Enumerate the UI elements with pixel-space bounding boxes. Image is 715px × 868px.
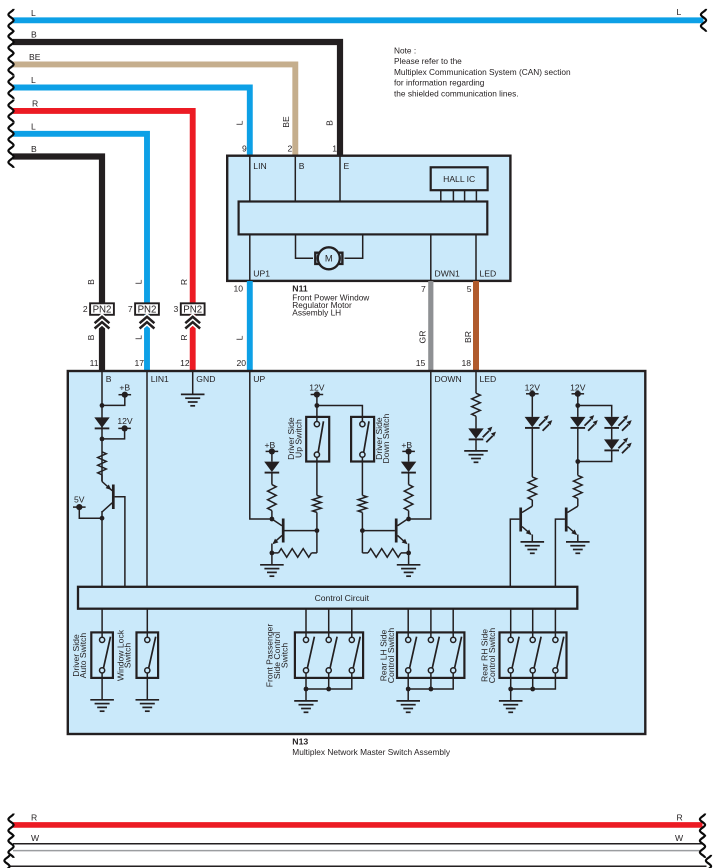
node 12V split <box>315 403 320 408</box>
svg-text:LED: LED <box>480 269 497 279</box>
svg-text:E: E <box>344 161 350 171</box>
wire BR (LED to N13 LED, pin 5 to pin 18) <box>463 281 476 371</box>
svg-text:R: R <box>179 279 189 285</box>
svg-text:10: 10 <box>233 284 243 294</box>
hall IC legs <box>441 190 477 201</box>
wire resistor to LED1 <box>475 416 477 428</box>
svg-text:UP1: UP1 <box>253 269 270 279</box>
wire 12V to up switch <box>316 406 318 422</box>
svg-text:12V: 12V <box>309 383 325 393</box>
svg-text:20: 20 <box>236 358 246 368</box>
svg-text:5V: 5V <box>74 495 85 505</box>
svg-text:W: W <box>31 833 40 843</box>
wire W (bottom, white with outline) <box>8 833 705 858</box>
wire 12V branch to down switch <box>317 406 363 422</box>
12V terminal left <box>102 416 133 439</box>
svg-text:Auto Switch: Auto Switch <box>78 633 88 679</box>
svg-text:W: W <box>675 833 684 843</box>
svg-text:R: R <box>32 99 38 109</box>
svg-text:12V: 12V <box>117 416 133 426</box>
wire BE3 (to N11 pin 2 B) <box>8 52 295 156</box>
wire shield line (bottom edge) <box>4 855 711 868</box>
motor M left brush bracket <box>315 253 321 264</box>
svg-text:1: 1 <box>332 144 337 154</box>
connector PN2 pin 3 (R wire) <box>174 303 205 371</box>
svg-text:B: B <box>31 30 37 40</box>
svg-text:Multiplex Network Master Switc: Multiplex Network Master Switch Assembly <box>292 747 451 757</box>
wire R5 (to connector PN2 pin 3 then N13 GND) <box>8 99 192 304</box>
resistor R5 below down switch <box>358 495 367 512</box>
node on B line at +B <box>100 403 105 408</box>
control circuit bar <box>78 587 577 609</box>
ground below auto switch <box>90 673 114 711</box>
wire join node to resistor <box>577 462 579 476</box>
wires bar to front passenger switch poles <box>306 609 352 638</box>
svg-text:LIN1: LIN1 <box>151 374 169 384</box>
svg-text:HALL IC: HALL IC <box>443 174 475 184</box>
svg-text:BR: BR <box>463 331 473 343</box>
svg-text:R: R <box>677 813 683 823</box>
wire node C down to feedback resistor <box>361 531 363 553</box>
svg-text:+B: +B <box>119 382 130 392</box>
diode D2 of UP branch <box>264 462 279 473</box>
svg-text:L: L <box>677 7 682 17</box>
hall IC box <box>431 167 488 190</box>
ground below rear LH switch <box>396 689 420 712</box>
svg-text:Down Switch: Down Switch <box>381 414 391 464</box>
wire R (bottom, full width) <box>8 813 705 837</box>
svg-text:GND: GND <box>196 374 215 384</box>
wire bar to driver side auto switch <box>101 609 103 638</box>
svg-text:B: B <box>299 161 305 171</box>
svg-text:12: 12 <box>180 358 190 368</box>
svg-text:L: L <box>133 335 143 340</box>
svg-text:B: B <box>31 144 37 154</box>
svg-text:N13: N13 <box>292 737 308 747</box>
ground of UP branch <box>260 553 284 576</box>
wire LIN1 column down to control circuit <box>146 372 148 587</box>
master switch N13 box <box>68 371 646 734</box>
svg-text:B: B <box>106 374 112 384</box>
svg-text:for information regarding: for information regarding <box>394 78 485 88</box>
svg-text:Note :: Note : <box>394 46 416 56</box>
svg-text:L: L <box>31 122 36 132</box>
feedback resistor R3 (horizontal) <box>272 549 317 558</box>
diode D3 of DOWN branch <box>401 462 416 473</box>
internal circuit bar of N11 <box>239 202 488 235</box>
ground of DOWN branch <box>397 553 421 576</box>
wire up switch to resistor <box>316 457 318 495</box>
N11 terminal DWN1 (pin 7) <box>431 234 460 280</box>
svg-text:L: L <box>133 279 143 284</box>
node D (DOWN collector node) <box>406 517 411 522</box>
window lock switch SW4 <box>116 629 158 681</box>
svg-text:Control Switch: Control Switch <box>487 628 497 684</box>
node split column 2 <box>575 403 580 408</box>
wire B7 (to connector PN2 pin 2 then N13 B) <box>8 144 102 303</box>
line resistor to transistor <box>101 475 103 482</box>
svg-text:Control Switch: Control Switch <box>386 628 396 684</box>
svg-text:2: 2 <box>83 304 88 314</box>
node A (UP collector node) <box>270 517 275 522</box>
svg-text:Up Switch: Up Switch <box>293 419 303 458</box>
N11 terminal LIN (pin 9) <box>250 156 267 202</box>
svg-text:5: 5 <box>467 284 472 294</box>
wires bar to rear RH switch poles <box>511 609 556 638</box>
wire LED3 down to join node <box>577 428 579 461</box>
svg-text:9: 9 <box>242 144 247 154</box>
svg-text:B: B <box>86 334 96 340</box>
node C (base node of Q3) <box>360 528 365 533</box>
feedback resistor R7 (horizontal) <box>362 549 408 558</box>
resistor R9 column 1 <box>528 477 537 500</box>
wire L4 (to N11 pin 9 LIN) <box>8 75 249 156</box>
wire resistor to node C <box>361 512 363 530</box>
ground below front passenger switch <box>294 689 318 712</box>
common wire below front passenger switch <box>304 673 352 691</box>
motor M right brush bracket <box>337 253 343 264</box>
wire right string down to join node <box>578 451 612 462</box>
wire B column upper segment <box>101 372 103 482</box>
wire LED2 to resistor <box>531 428 533 477</box>
transistor Q3 (NPN, DOWN driver) <box>362 519 408 553</box>
wire DOWN column down and left to node D <box>411 372 431 519</box>
transistor Q5 (NPN, indicator driver 2) <box>555 506 577 587</box>
12V terminal of indicator column 1 <box>525 383 541 417</box>
node on B line at 12V <box>100 437 105 442</box>
LED1 (illumination) <box>468 427 496 443</box>
ground below rear RH switch <box>499 689 523 712</box>
+B terminal of UP branch <box>265 440 279 462</box>
wire resistor to transistor Q4 <box>531 500 533 506</box>
svg-text:L: L <box>235 335 245 340</box>
node emitter DOWN <box>406 551 411 556</box>
resistor R1 on B line <box>98 452 107 475</box>
motor M <box>318 247 340 269</box>
svg-text:17: 17 <box>134 358 144 368</box>
svg-text:R: R <box>179 334 189 340</box>
LED4 (right string upper) <box>604 415 632 431</box>
N11 terminal UP1 (pin 10) <box>250 234 270 280</box>
wire GR (DWN1 to N13 DOWN, pin 7 to pin 15) <box>417 281 430 371</box>
wire from bar to motor left brush <box>296 234 314 258</box>
ground at GND terminal <box>181 394 205 405</box>
svg-text:11: 11 <box>90 358 99 368</box>
svg-text:BE: BE <box>281 116 291 128</box>
common wire below rear RH switch <box>508 673 555 691</box>
svg-text:Please refer to the: Please refer to the <box>394 56 462 66</box>
svg-text:B: B <box>324 120 334 126</box>
svg-text:L: L <box>235 120 245 125</box>
wire diode to resistor <box>271 473 273 485</box>
wire diode to resistor <box>408 473 410 485</box>
wire LED column <box>475 372 477 394</box>
12V terminal feeding driver switches <box>309 383 325 406</box>
wire L6 (to connector PN2 pin 7 then N13 LIN1) <box>8 122 147 304</box>
wire resistor to transistor Q5 <box>577 498 579 506</box>
svg-text:L: L <box>31 75 36 85</box>
svg-text:M: M <box>325 253 333 264</box>
resistor R2 of UP branch <box>268 485 277 511</box>
svg-text:BE: BE <box>29 52 41 62</box>
ground below LED1 <box>464 440 488 463</box>
svg-text:3: 3 <box>174 304 179 314</box>
wire from bar to motor right brush <box>345 234 363 258</box>
rear RH side control switch SW7 <box>480 628 567 684</box>
node B (base node of Q2) <box>315 528 320 533</box>
svg-text:7: 7 <box>128 304 133 314</box>
wire resistor to node D <box>408 511 410 519</box>
wire down switch to resistor <box>361 457 363 495</box>
connector PN2 pin 2 (B wire) <box>83 303 114 371</box>
svg-text:Switch: Switch <box>280 643 290 669</box>
svg-text:Assembly LH: Assembly LH <box>292 307 341 317</box>
svg-text:+B: +B <box>401 440 412 450</box>
driver side up switch SW1 <box>286 417 329 462</box>
svg-text:7: 7 <box>421 284 426 294</box>
svg-text:B: B <box>86 279 96 285</box>
wire GND column <box>192 372 194 395</box>
LED2 (indicator column 1) <box>525 415 553 431</box>
wire L (UP1 to N13 UP, pin 10 to pin 20) <box>235 281 250 371</box>
wire LED4 to LED5 <box>611 428 613 439</box>
node join column 2 <box>575 459 580 464</box>
driver side down switch SW2 <box>351 414 391 464</box>
N13 designation text <box>292 737 451 757</box>
wire B column lower segment to control circuit <box>101 511 103 587</box>
wires bar to rear LH switch poles <box>408 609 453 638</box>
svg-text:UP: UP <box>253 374 265 384</box>
rear LH side control switch SW6 <box>379 628 465 684</box>
ground of indicator column 2 <box>566 542 590 553</box>
wire bar to window lock switch <box>146 609 148 638</box>
LED5 (right string lower) <box>604 438 632 454</box>
5V terminal <box>73 495 102 519</box>
svg-text:DOWN: DOWN <box>435 374 462 384</box>
+B terminal top left <box>102 382 131 405</box>
svg-text:15: 15 <box>416 358 426 368</box>
svg-text:Control Circuit: Control Circuit <box>315 593 370 603</box>
wire resistor to node A <box>271 511 273 519</box>
svg-text:DWN1: DWN1 <box>435 269 461 279</box>
wire L1 (CAN line, full width) <box>8 7 706 32</box>
wire resistor to node B <box>316 512 318 530</box>
transistor Q4 (NPN, indicator driver 1) <box>510 506 532 587</box>
12V terminal of indicator column 2 <box>570 383 586 417</box>
node on B line at 5V <box>100 516 105 521</box>
wire branch to right LED string <box>578 406 612 417</box>
svg-text:the shielded communication lin: the shielded communication lines. <box>394 88 519 98</box>
N11 terminal B (pin 2) <box>295 156 305 202</box>
resistor R10 column 2 <box>574 475 583 498</box>
ground below window lock switch <box>136 673 160 711</box>
svg-text:LIN: LIN <box>253 161 266 171</box>
svg-text:GR: GR <box>417 331 427 344</box>
ground of indicator column 1 <box>521 542 545 553</box>
resistor R6 of DOWN branch <box>404 485 413 511</box>
+B terminal of DOWN branch <box>401 440 415 462</box>
LED3 (left string) <box>570 415 598 431</box>
N11 terminal E (pin 1) <box>340 156 350 202</box>
transistor Q2 (NPN mirrored, UP driver) <box>272 519 317 553</box>
front passenger side control switch SW5 <box>265 624 363 688</box>
svg-text:Multiplex Communication System: Multiplex Communication System (CAN) sec… <box>394 67 571 77</box>
N11 designation text <box>292 283 370 317</box>
svg-text:18: 18 <box>461 358 471 368</box>
svg-text:R: R <box>31 813 37 823</box>
svg-text:L: L <box>31 8 36 18</box>
node emitter UP <box>270 551 275 556</box>
svg-text:Switch: Switch <box>123 643 133 669</box>
svg-text:+B: +B <box>265 440 276 450</box>
wire B2 (to N11 pin 1 E) <box>8 30 340 157</box>
transistor Q1 (PNP, bar right of B line) <box>102 482 125 588</box>
N11 terminal LED (pin 5) <box>476 234 496 280</box>
driver side auto switch SW3 <box>71 632 113 678</box>
resistor R4 below up switch <box>313 495 322 512</box>
connector PN2 pin 7 (L wire) <box>128 303 159 371</box>
common wire below rear LH switch <box>406 673 453 691</box>
svg-text:2: 2 <box>288 144 293 154</box>
svg-text:LED: LED <box>480 374 497 384</box>
diode D1 on B line <box>94 417 109 428</box>
resistor R8 on LED column <box>472 393 481 416</box>
wire UP column down and right to node A <box>250 372 270 519</box>
wire node B down to feedback resistor <box>316 531 318 553</box>
motor assembly N11 box <box>227 156 510 281</box>
